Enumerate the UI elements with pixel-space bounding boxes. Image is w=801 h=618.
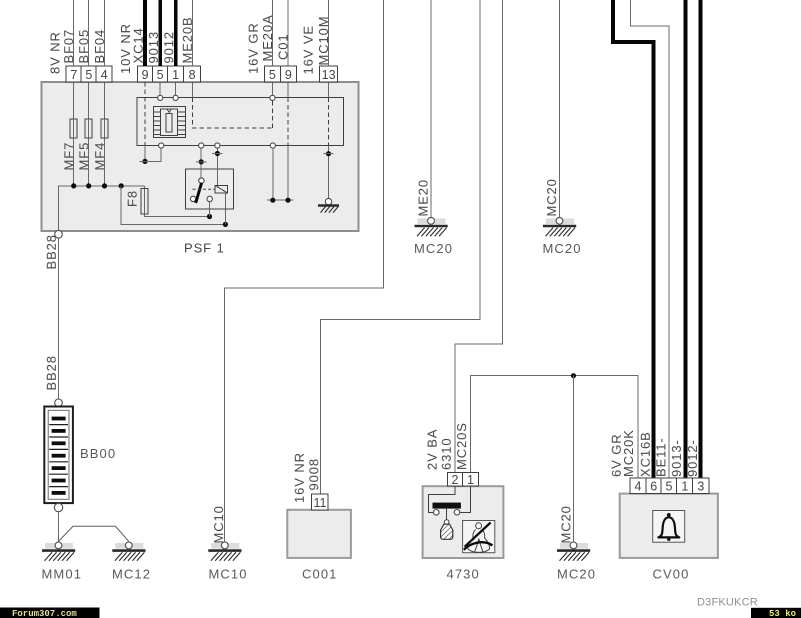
junction dot MC20 branch xyxy=(571,373,576,378)
terminal circle module bottom switch xyxy=(199,143,204,148)
wire top 9012 thick xyxy=(174,0,178,66)
wire MC10M dashed through module xyxy=(328,97,330,145)
wire C01 below module xyxy=(287,146,289,201)
wire F8 drop xyxy=(145,186,210,217)
wire pin7 BF07 to fuse MF7 to bus xyxy=(73,82,75,186)
svg-text:9013: 9013 xyxy=(146,31,161,64)
svg-text:3: 3 xyxy=(697,480,704,494)
svg-text:53 ko: 53 ko xyxy=(769,609,796,618)
buckle pendant 4730 xyxy=(441,509,453,540)
svg-text:5: 5 xyxy=(157,68,164,82)
svg-text:C001: C001 xyxy=(302,567,337,582)
svg-text:6: 6 xyxy=(650,480,657,494)
connector pin 3 CV00 xyxy=(693,478,709,493)
wire net A top to MC10 xyxy=(225,0,384,541)
svg-text:5: 5 xyxy=(666,480,673,494)
svg-text:BB28: BB28 xyxy=(44,355,59,390)
wire ME20A below module xyxy=(272,148,274,200)
bell icon CV00 xyxy=(653,511,685,543)
svg-text:BF07: BF07 xyxy=(61,29,76,64)
wire C01 pin9 xyxy=(287,82,289,97)
svg-text:1: 1 xyxy=(681,480,688,494)
svg-text:BF04: BF04 xyxy=(92,29,107,64)
svg-text:MF7: MF7 xyxy=(61,142,76,171)
ground MC10 xyxy=(208,542,241,561)
fusebox PSF1 body xyxy=(42,82,359,231)
wire top BF04 xyxy=(104,0,106,66)
svg-text:4: 4 xyxy=(635,480,642,494)
wire MC10M pin13 xyxy=(328,82,330,97)
svg-text:MC10M: MC10M xyxy=(316,15,331,65)
terminal circle module top ME20A xyxy=(270,95,275,100)
connector pin 5 CV00 xyxy=(661,478,677,493)
wire XC14 dashed inside PSF1 xyxy=(144,82,146,146)
wire battery to MM01 xyxy=(58,512,60,542)
relay K1 box xyxy=(186,169,234,209)
node battery bottom circle xyxy=(54,503,62,511)
wire ME20A dashed inside module xyxy=(272,101,274,128)
ground MM01 xyxy=(42,542,75,561)
svg-text:5: 5 xyxy=(85,68,92,82)
connector pin 7 xyxy=(66,66,81,82)
switch contact circles 4730 xyxy=(434,510,440,516)
junction dot C01 xyxy=(285,198,290,203)
ground internal PSF1 xyxy=(318,198,339,212)
connector pin 5 ME20A xyxy=(264,66,280,82)
relay coil xyxy=(215,185,228,193)
wire MC10M to internal ground xyxy=(328,146,330,199)
svg-text:MM01: MM01 xyxy=(42,567,83,582)
component 4730 body xyxy=(423,486,504,558)
wire net 9012 thick to CV00 pin3 xyxy=(699,0,703,478)
fuse F8 xyxy=(141,189,148,215)
wire net ME20 top to ground xyxy=(430,0,432,217)
svg-text:9013-: 9013- xyxy=(669,439,684,477)
wire top ME20A xyxy=(272,0,274,66)
junction dot coil top xyxy=(215,151,220,156)
wire net 6310 top to 4730 xyxy=(455,0,503,473)
connector pin 4 CV00 xyxy=(630,478,646,493)
connector pin 5 xyxy=(81,66,96,82)
svg-text:MF4: MF4 xyxy=(92,142,107,171)
svg-text:Forum307.com: Forum307.com xyxy=(12,609,77,618)
wire C01 dashed through module xyxy=(287,97,289,145)
junction dot bus-MF7 xyxy=(71,183,76,188)
connector pin 1 4730 xyxy=(463,473,479,487)
svg-text:ME20: ME20 xyxy=(416,179,431,217)
component CV00 body xyxy=(620,494,718,558)
wire relay coil top xyxy=(216,148,218,185)
svg-text:9: 9 xyxy=(285,68,292,82)
junction dot bus-MF5 xyxy=(86,183,91,188)
svg-text:6310: 6310 xyxy=(439,437,454,470)
wire ME20B pin8 xyxy=(191,82,193,97)
svg-text:9012-: 9012- xyxy=(685,439,700,477)
svg-text:9008: 9008 xyxy=(306,458,321,491)
wire top ME20B xyxy=(191,0,193,66)
junction dot coil bottom xyxy=(223,222,228,227)
svg-text:MC10: MC10 xyxy=(211,505,226,543)
node battery top circle xyxy=(55,399,63,407)
wire net MC20 top to ground xyxy=(559,0,561,217)
tick switch top xyxy=(196,161,207,163)
svg-text:MC20: MC20 xyxy=(557,567,596,582)
relay switch blade xyxy=(196,183,202,203)
svg-text:16V VE: 16V VE xyxy=(301,25,316,75)
svg-text:2V BA: 2V BA xyxy=(425,429,440,470)
svg-text:BB28: BB28 xyxy=(44,234,59,269)
wire net 9008 top to C001 xyxy=(321,0,481,494)
wire top BF05 xyxy=(88,0,90,66)
module symbol U1 xyxy=(154,107,186,138)
svg-text:4: 4 xyxy=(101,68,108,82)
svg-text:ME20B: ME20B xyxy=(180,16,195,63)
svg-text:ME20A: ME20A xyxy=(260,14,275,61)
terminal circle module bottom XC14 xyxy=(159,143,164,148)
wire pin5 BF05 to fuse MF5 to bus xyxy=(88,82,90,186)
wire relay switch top xyxy=(200,148,202,178)
svg-text:8: 8 xyxy=(189,68,196,82)
svg-text:D3FKUKCR: D3FKUKCR xyxy=(697,597,758,609)
ground MC20 upper left xyxy=(415,217,448,236)
wire net 9013 thick to CV00 pin1 xyxy=(684,0,688,478)
svg-text:9012: 9012 xyxy=(161,31,176,64)
svg-text:7: 7 xyxy=(70,68,77,82)
tick coil top xyxy=(212,153,222,155)
wire pin4 BF04 to fuse MF4 to bus xyxy=(104,82,106,186)
fuse MF4 xyxy=(101,119,108,138)
connector pin 1 9012 xyxy=(168,66,184,82)
wire net MC20S MC20K ground link xyxy=(471,376,638,479)
connector pin 13 MC10M xyxy=(320,66,338,82)
wire ME20A pin5 into module xyxy=(272,82,274,95)
junction dot ME20A xyxy=(270,198,275,203)
terminal circle module bottom coil xyxy=(215,143,220,148)
svg-text:9: 9 xyxy=(142,68,149,82)
wire coil feed xyxy=(121,186,225,225)
connector pin 4 xyxy=(96,66,112,82)
svg-text:XC14: XC14 xyxy=(131,27,146,63)
footer size box xyxy=(751,608,801,618)
svg-text:BF05: BF05 xyxy=(76,29,91,64)
wire joining ME20A C01 xyxy=(267,199,294,201)
wire branch to ground MC20 xyxy=(573,376,575,542)
component C001 body xyxy=(287,510,351,558)
ground MC12 xyxy=(112,542,145,561)
relay switch contact circles xyxy=(199,178,204,183)
svg-text:16V NR: 16V NR xyxy=(292,452,307,503)
svg-text:MC10: MC10 xyxy=(209,567,248,582)
svg-text:XC16B: XC16B xyxy=(638,431,653,477)
wire net BE11 top to CV00 pin5 xyxy=(631,0,670,478)
svg-text:16V GR: 16V GR xyxy=(246,22,261,74)
svg-text:MF5: MF5 xyxy=(76,142,91,171)
wire 9013 pin5 into module xyxy=(159,82,161,95)
wire 4730 pin2 internal xyxy=(429,486,456,512)
connector pin 11 C001 xyxy=(312,494,329,510)
wire branch to MC12 xyxy=(59,526,129,541)
terminal circle module top 9013 xyxy=(158,95,163,100)
svg-text:CV00: CV00 xyxy=(653,567,690,582)
tick MC10M xyxy=(323,153,333,155)
terminal circle module bottom ME20A xyxy=(270,143,275,148)
connector pin 8 ME20B xyxy=(184,66,201,82)
connector pin 5 9013 xyxy=(153,66,168,82)
tick XC14 xyxy=(140,160,151,162)
svg-text:2: 2 xyxy=(452,473,459,487)
wire relay output to F8 node xyxy=(209,202,211,217)
battery BB00 xyxy=(44,407,73,504)
svg-text:1: 1 xyxy=(172,68,179,82)
junction dot switch top xyxy=(199,159,204,164)
fuse MF7 xyxy=(70,119,77,138)
junction dot XC14 xyxy=(142,159,147,164)
connector pin 9 XC14 xyxy=(138,66,153,82)
seat belt icon 4730 xyxy=(463,521,495,553)
wire module pin link L xyxy=(148,148,162,161)
connector pin 1 CV00 xyxy=(677,478,693,493)
svg-text:MC20: MC20 xyxy=(414,241,453,256)
wire top C01 xyxy=(287,0,289,66)
svg-text:MC20S: MC20S xyxy=(454,422,469,470)
node BB28 exit circle xyxy=(55,231,63,239)
svg-text:5: 5 xyxy=(269,68,276,82)
svg-text:13: 13 xyxy=(322,68,336,82)
wire top MC10M xyxy=(328,0,330,66)
svg-text:F8: F8 xyxy=(125,190,140,207)
svg-text:1: 1 xyxy=(467,473,474,487)
relay mechanical link dashed xyxy=(193,188,216,190)
junction dot MC10M xyxy=(326,151,331,156)
switch bar 4730 xyxy=(433,503,461,509)
svg-text:MC20: MC20 xyxy=(543,241,582,256)
svg-text:C01: C01 xyxy=(276,33,291,60)
ground MC20 upper right xyxy=(543,217,576,236)
ground MC20 bottom xyxy=(557,542,590,561)
connector pin 2 4730 xyxy=(447,473,462,487)
svg-text:4730: 4730 xyxy=(447,567,480,582)
wire BB28 xyxy=(58,238,60,399)
wire XC14 solid tail xyxy=(144,146,146,162)
junction dot bus-MF4 xyxy=(102,183,107,188)
connector pin 6 CV00 xyxy=(646,478,661,493)
svg-text:MC20: MC20 xyxy=(558,505,573,543)
connector pin 9 C01 xyxy=(280,66,296,82)
svg-text:MC20: MC20 xyxy=(544,178,559,216)
wire top 9013 thick xyxy=(158,0,162,66)
fuse MF5 xyxy=(85,119,92,138)
wire top BF07 xyxy=(73,0,75,66)
wire 4730 pin1 internal xyxy=(460,486,471,512)
svg-text:MC20K: MC20K xyxy=(621,429,636,477)
svg-text:PSF 1: PSF 1 xyxy=(184,241,225,256)
wire coil bottom xyxy=(224,193,226,224)
wire ME20B dashed inside module xyxy=(192,97,272,128)
wire net XC16B thick top to CV00 pin6 xyxy=(613,0,654,478)
svg-text:BE11-: BE11- xyxy=(653,437,668,477)
wire top XC14 thick xyxy=(143,0,147,66)
junction dot F8-relay xyxy=(207,214,212,219)
terminal circle module top 9012 xyxy=(173,95,178,100)
wire 9012 pin1 into module xyxy=(175,82,177,95)
footer forum watermark xyxy=(0,608,100,618)
svg-text:MC12: MC12 xyxy=(112,567,151,582)
svg-text:BB00: BB00 xyxy=(80,446,116,461)
junction dot bus-coil feed xyxy=(119,183,124,188)
svg-text:11: 11 xyxy=(314,496,327,510)
inner module box xyxy=(137,97,344,145)
bus wire battery feed xyxy=(59,186,145,231)
